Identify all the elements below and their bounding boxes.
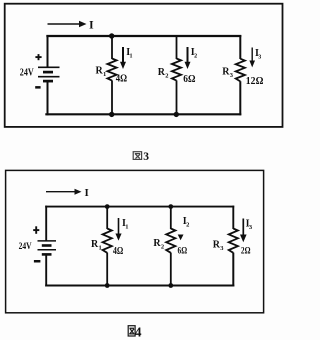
label R3 (fig1): [222, 66, 234, 79]
svg-text:I: I: [85, 187, 89, 199]
minus terminal (fig2): [34, 260, 41, 263]
label R1 (fig1): [96, 66, 107, 79]
wire branch R1 upper (fig1): [111, 36, 113, 59]
current arrow I (fig2): [46, 189, 82, 195]
plus terminal (fig2): [33, 226, 39, 234]
svg-text:1: 1: [130, 54, 133, 60]
svg-text:2: 2: [161, 244, 164, 251]
caption figure 4 glyph tu: [128, 326, 135, 336]
battery 24V (fig1): [38, 67, 60, 81]
svg-text:3: 3: [143, 151, 149, 163]
label R1 (fig2): [91, 239, 102, 252]
label I2 (fig1): [191, 47, 197, 59]
wire bottom (fig1): [45, 113, 241, 115]
junction dot R2 top (fig2): [168, 204, 173, 209]
label I1 (fig1): [126, 47, 132, 59]
label R2 (fig1): [158, 67, 169, 80]
junction dot R1 top (fig1): [109, 33, 114, 38]
svg-text:2: 2: [194, 54, 197, 60]
svg-text:6Ω: 6Ω: [178, 247, 188, 257]
svg-text:1: 1: [103, 71, 106, 78]
svg-text:12Ω: 12Ω: [246, 76, 264, 87]
current arrow I2 head (fig2): [178, 235, 184, 241]
svg-text:1: 1: [99, 244, 102, 251]
current arrow I1 (fig2): [115, 218, 121, 241]
resistor R2 zigzag (fig2): [166, 229, 175, 253]
svg-text:6Ω: 6Ω: [183, 74, 195, 85]
label R3 (fig2): [213, 239, 225, 252]
resistor R2 zigzag (fig1): [172, 59, 181, 81]
label I3 (fig1): [255, 48, 261, 60]
svg-text:2Ω: 2Ω: [241, 246, 251, 256]
svg-text:I: I: [89, 17, 94, 31]
caption figure 3 glyph tu: [133, 152, 141, 160]
junction dot R1 bottom (fig2): [105, 283, 110, 288]
battery 24V (fig2): [38, 241, 57, 255]
wire battery negative lead (fig2): [45, 254, 47, 286]
frame box figure 2: [6, 170, 264, 312]
current arrow I1 (fig1): [120, 47, 126, 69]
current arrow I3 (fig2): [240, 219, 247, 243]
current arrow I (fig1): [48, 21, 87, 27]
junction dot R1 bottom (fig1): [109, 112, 114, 117]
wire branch R2 upper (fig1): [176, 36, 178, 59]
svg-text:24V: 24V: [20, 67, 35, 78]
current arrow I2 (fig1): [185, 47, 191, 69]
wire battery positive lead (fig1): [47, 35, 49, 67]
resistor R1 zigzag (fig2): [103, 229, 112, 253]
wire bottom (fig2): [45, 284, 234, 286]
svg-text:2: 2: [186, 222, 189, 229]
svg-text:2: 2: [165, 73, 168, 80]
wire branch R1 lower (fig1): [111, 80, 113, 114]
wire branch R3 upper (fig1): [239, 35, 241, 59]
frame box figure 1: [5, 4, 283, 127]
resistor R3 zigzag (fig1): [236, 59, 245, 82]
wire branch R2 upper (fig2): [170, 207, 172, 229]
resistor R1 zigzag (fig1): [107, 59, 116, 81]
minus terminal (fig1): [35, 86, 40, 89]
wire battery positive lead (fig2): [45, 206, 47, 242]
label I1 (fig2): [122, 218, 129, 231]
wire top (fig1): [46, 35, 241, 37]
wire branch R1 lower (fig2): [106, 253, 108, 286]
junction dot R2 bottom (fig1): [174, 112, 179, 117]
plus terminal (fig1): [35, 54, 41, 60]
label I3 (fig2): [246, 219, 253, 232]
junction dot R1 top (fig2): [105, 204, 110, 209]
current arrow I3 (fig1): [249, 48, 255, 68]
wire battery negative lead (fig1): [47, 81, 49, 115]
label R2 (fig2): [153, 238, 164, 251]
wire branch R3 lower (fig2): [232, 253, 234, 287]
svg-text:4Ω: 4Ω: [116, 73, 127, 84]
wire branch R2 lower (fig1): [176, 80, 178, 114]
label I2 (fig2): [183, 216, 190, 229]
svg-text:1: 1: [125, 223, 128, 230]
wire branch R1 upper (fig2): [106, 207, 108, 229]
svg-text:24V: 24V: [19, 242, 32, 252]
wire branch R2 lower (fig2): [170, 253, 172, 286]
wire branch R3 upper (fig2): [232, 206, 234, 229]
svg-text:4: 4: [135, 325, 142, 340]
svg-text:4Ω: 4Ω: [113, 246, 123, 257]
svg-text:3: 3: [258, 55, 261, 61]
junction dot R2 bottom (fig2): [168, 283, 173, 288]
wire branch R3 lower (fig1): [239, 81, 241, 115]
resistor R3 zigzag (fig2): [229, 229, 238, 253]
wire top (fig2): [45, 206, 234, 208]
